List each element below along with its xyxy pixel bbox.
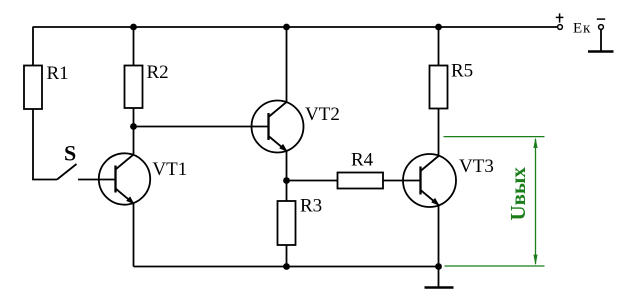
resistor R2 [125, 62, 169, 108]
wire node to VT2 base [134, 126, 269, 128]
wire R3 bottom to rail [286, 245, 288, 267]
resistor R5 [430, 61, 474, 109]
wire top rail [33, 26, 558, 28]
wire VT1 emitter to bottom rail [133, 204, 135, 267]
wire R4 to VT3 base [383, 180, 421, 182]
junction dot VT3 emitter / bottom rail [435, 263, 442, 270]
transistor VT2 [252, 101, 340, 153]
resistor R4 [338, 150, 384, 189]
chassis bar [588, 50, 614, 52]
wire VT2 emitter down to node [286, 151, 288, 181]
switch S [32, 141, 76, 180]
svg-text:R4: R4 [351, 150, 374, 171]
wire - terminal down [600, 30, 602, 52]
resistor R3 [278, 196, 323, 245]
svg-text:S: S [64, 141, 76, 166]
wire switch to VT1 base [78, 179, 116, 181]
terminal + Ek [556, 13, 564, 29]
green dimension line bottom [445, 265, 545, 267]
node base net dot [130, 123, 137, 130]
wire node down to R3 [286, 181, 288, 202]
junction dot top rail / VT2 [283, 24, 290, 31]
svg-text:R3: R3 [300, 196, 322, 217]
green arrow vertical [533, 137, 537, 265]
junction dot top rail / R2 [130, 24, 137, 31]
node VT2 emitter / R3 / R4 dot [283, 177, 290, 184]
ground [425, 267, 454, 288]
junction dot top rail / R5 [435, 24, 442, 31]
svg-text:VT1: VT1 [152, 159, 187, 180]
svg-text:Ек: Ек [573, 20, 591, 36]
wire left column (top) [32, 27, 34, 66]
svg-text:Uвых: Uвых [506, 167, 530, 221]
svg-text:R1: R1 [47, 63, 69, 84]
terminal - Ek [597, 19, 605, 29]
resistor R1 [24, 63, 69, 109]
svg-text:R5: R5 [451, 61, 473, 82]
wire node to R4 [287, 180, 338, 182]
wire node down to VT1 collector [133, 127, 135, 156]
wire R5 bottom to VT3 collector [438, 109, 440, 157]
wire bottom rail [134, 266, 439, 268]
svg-text:VT3: VT3 [459, 156, 494, 177]
green dimension line top [444, 136, 545, 138]
junction dot R3 / bottom rail [283, 263, 290, 270]
svg-text:R2: R2 [147, 62, 169, 83]
transistor VT3 [403, 154, 494, 207]
transistor VT1 [99, 153, 187, 204]
svg-text:VT2: VT2 [305, 104, 340, 125]
wire VT3 emitter to bottom rail [438, 205, 440, 267]
wire R1 bottom to switch [32, 109, 34, 180]
wire top rail drop to R5 [438, 27, 440, 66]
wire VT2 collector up to rail [286, 27, 288, 102]
wire top rail drop to R2 [133, 27, 135, 66]
wire R2 bottom to node [133, 108, 135, 127]
